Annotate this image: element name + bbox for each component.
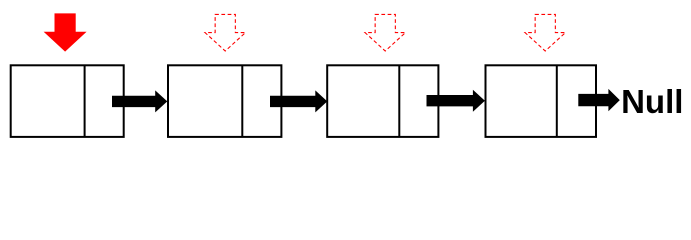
dashed red arrow over node 2: [205, 14, 245, 51]
node 1 divider (data | next): [84, 65, 86, 137]
black link arrow node1 -> node2: [112, 90, 167, 112]
black link arrow node2 -> node3: [270, 90, 327, 112]
node 4 outer box: [486, 65, 597, 137]
black arrow node4 -> Null: [578, 89, 620, 111]
node 2 outer box: [168, 65, 281, 137]
node 4 divider (data | next): [556, 65, 558, 137]
svg-text:Null: Null: [621, 83, 683, 120]
dashed red arrow over node 3: [365, 14, 405, 51]
node 1 outer box: [11, 65, 124, 137]
head pointer solid red arrow over node 1: [45, 14, 85, 51]
node 2 divider (data | next): [241, 65, 243, 137]
dashed red arrow over node 4: [525, 14, 565, 51]
black link arrow node3 -> node4: [427, 90, 485, 112]
node 3 outer box: [327, 65, 438, 137]
node 3 divider (data | next): [398, 65, 400, 137]
